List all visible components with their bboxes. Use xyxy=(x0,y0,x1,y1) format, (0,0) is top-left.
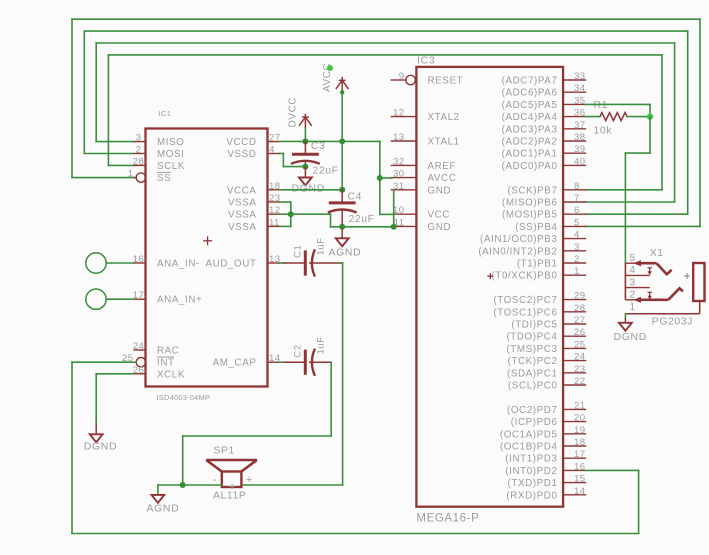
svg-text:SS: SS xyxy=(157,173,171,184)
IC3 pin 2 (T1)PB1 stub xyxy=(563,262,585,264)
IC3 pin 11 GND stub xyxy=(391,225,417,227)
svg-text:3: 3 xyxy=(574,242,580,253)
wire PA5 down to junction xyxy=(649,104,651,116)
capacitor C2 right lead xyxy=(310,361,332,363)
wire C1 to speaker vertical start xyxy=(340,262,343,264)
svg-text:26: 26 xyxy=(133,365,144,376)
IC3 pin 23 (SDA)PC1 stub xyxy=(563,372,585,374)
wire DVCC down to VCCD net xyxy=(304,129,306,142)
svg-text:1uF: 1uF xyxy=(316,336,327,354)
IC3 pin 13 XTAL1 stub xyxy=(391,140,417,142)
wire VSSD to C3 bottom xyxy=(283,166,305,168)
svg-text:(TMS)PC3: (TMS)PC3 xyxy=(506,344,557,355)
wire INT from IC1 pin 25 xyxy=(72,361,136,363)
svg-text:ANA_IN-: ANA_IN- xyxy=(157,259,200,270)
wire net SS left vertical xyxy=(71,19,73,177)
node ANA_IN- input pad circle xyxy=(86,253,106,273)
capacitor C1 right lead xyxy=(310,262,340,264)
svg-text:2: 2 xyxy=(630,290,636,301)
svg-text:1: 1 xyxy=(574,266,580,277)
IC3 pin 35 (ADC5)PA5 stub xyxy=(563,103,585,105)
wire net SS into IC3 pin 5 xyxy=(586,225,701,227)
wire VSSA pin 11 xyxy=(280,225,291,227)
svg-text:PG203J: PG203J xyxy=(652,316,693,327)
IC3 pin 31 GND stub xyxy=(391,189,417,191)
junction VSSA tie xyxy=(288,211,294,217)
IC3 pin 18 (OC1B)PD4 stub xyxy=(563,445,585,447)
svg-text:39: 39 xyxy=(574,144,585,155)
capacitor C2 xyxy=(305,349,315,376)
svg-text:VSSA: VSSA xyxy=(228,222,257,233)
svg-text:7: 7 xyxy=(574,193,580,204)
IC1 pin 11 VSSA stub xyxy=(268,225,280,227)
AGND under C4 xyxy=(336,227,349,246)
power DVCC xyxy=(299,114,312,129)
svg-text:28: 28 xyxy=(574,303,585,314)
svg-text:(TOSC2)PC7: (TOSC2)PC7 xyxy=(493,295,557,306)
wire net SS right vertical xyxy=(699,19,701,226)
wire VSSA pin 23 xyxy=(280,201,291,203)
IC1 pin 28 SCLK stub xyxy=(134,164,146,166)
IC3 pin 15 (TXD)PD1 stub xyxy=(563,482,585,484)
svg-text:4: 4 xyxy=(269,145,275,156)
IC1 pin 26 XCLK stub xyxy=(134,373,146,375)
IC3 pin 32 AREF stub xyxy=(391,164,417,166)
svg-text:(TOSC1)PC6: (TOSC1)PC6 xyxy=(493,307,557,318)
wire C2 return vertical left xyxy=(182,436,184,485)
svg-text:C4: C4 xyxy=(348,192,362,203)
svg-text:-: - xyxy=(213,474,217,486)
svg-text:SP1: SP1 xyxy=(214,446,235,457)
IC3 pin 39 (ADC1)PA1 stub xyxy=(563,152,585,154)
IC1 pin 12 VSSA stub xyxy=(268,213,280,215)
svg-text:SCLK: SCLK xyxy=(157,161,185,172)
svg-text:9: 9 xyxy=(399,71,405,82)
svg-text:27: 27 xyxy=(574,315,585,326)
svg-text:(SS)PB4: (SS)PB4 xyxy=(515,222,557,233)
IC3 MEGA16-P box xyxy=(416,67,563,507)
IC3 pin 1 (T0/XCK)PB0 stub xyxy=(563,274,585,276)
wire speaker - to AGND xyxy=(158,484,222,486)
svg-text:INT: INT xyxy=(157,358,175,369)
wire junction down xyxy=(649,117,651,154)
wire net MOSI top horizontal xyxy=(84,30,687,32)
wire jog left xyxy=(625,152,650,154)
svg-text:(TDI)PC5: (TDI)PC5 xyxy=(511,320,557,331)
svg-text:(AIN1/OC0)PB3: (AIN1/OC0)PB3 xyxy=(480,234,558,245)
junction AVCC rail on VCCD rail xyxy=(339,138,345,144)
svg-text:(OC2)PD7: (OC2)PD7 xyxy=(507,405,558,416)
svg-text:(OC1B)PD4: (OC1B)PD4 xyxy=(500,442,558,453)
DGND under X1 xyxy=(619,319,632,331)
svg-text:3: 3 xyxy=(136,133,142,144)
wire AVCC rail vertical xyxy=(341,92,343,190)
wire net MOSI into IC3 pin 6 xyxy=(586,213,688,215)
svg-text:VCCD: VCCD xyxy=(226,137,256,148)
svg-text:DVCC: DVCC xyxy=(288,97,299,128)
svg-text:RAC: RAC xyxy=(157,346,180,357)
svg-text:+: + xyxy=(684,269,691,283)
svg-text:40: 40 xyxy=(574,156,585,167)
svg-text:14: 14 xyxy=(574,486,586,497)
svg-text:R1: R1 xyxy=(594,100,608,111)
wire AM_CAP to C2 xyxy=(280,361,285,363)
IC3 pin 34 (ADC6)PA6 stub xyxy=(563,91,585,93)
wire C1 to speaker vertical xyxy=(342,263,344,485)
wire VSSA elbow vertical xyxy=(330,214,332,227)
IC1 pin 2 MOSI stub xyxy=(134,153,146,155)
wire INT bottom horizontal xyxy=(72,533,639,535)
wire ANA_IN+ to IC1 pin 17 xyxy=(106,298,133,300)
wire VSSA tie vertical xyxy=(290,202,292,226)
wire AVCC branch vertical lower xyxy=(379,178,381,214)
speaker SP1 xyxy=(206,460,257,487)
svg-text:23: 23 xyxy=(574,364,585,375)
svg-text:22uF: 22uF xyxy=(349,214,375,225)
wire VCCD rail horizontal xyxy=(280,140,380,142)
svg-text:26: 26 xyxy=(574,327,585,338)
svg-text:ANA_IN+: ANA_IN+ xyxy=(157,295,202,306)
svg-text:VSSA: VSSA xyxy=(228,210,257,221)
svg-text:(TCK)PC2: (TCK)PC2 xyxy=(508,356,558,367)
wire R1 to junction xyxy=(627,116,650,118)
svg-text:3: 3 xyxy=(630,277,636,288)
IC3 pin 9 RESET stub xyxy=(391,75,416,84)
wire AGND net horizontal to IC3 pin 11 xyxy=(331,226,394,228)
node ANA_IN+ input pad circle xyxy=(86,289,106,309)
svg-text:(T1)PB1: (T1)PB1 xyxy=(517,259,558,270)
svg-text:6: 6 xyxy=(574,205,580,216)
svg-text:+: + xyxy=(246,474,252,486)
svg-text:12: 12 xyxy=(393,108,404,119)
svg-text:AVCC: AVCC xyxy=(428,173,457,184)
svg-text:(ADC4)PA4: (ADC4)PA4 xyxy=(502,112,558,123)
svg-text:22: 22 xyxy=(574,376,585,387)
svg-text:24: 24 xyxy=(133,341,145,352)
wire VSSD stub link xyxy=(280,153,284,155)
svg-text:AM_CAP: AM_CAP xyxy=(213,358,257,369)
wire AVCC branch vertical upper xyxy=(379,141,381,178)
svg-text:(ADC7)PA7: (ADC7)PA7 xyxy=(502,76,558,87)
svg-text:20: 20 xyxy=(574,413,585,424)
svg-text:VCC: VCC xyxy=(428,210,451,221)
wire net SCK left vertical xyxy=(107,55,109,165)
DGND under C3 xyxy=(299,167,312,186)
svg-text:VSSD: VSSD xyxy=(227,149,256,160)
svg-text:(TXD)PD1: (TXD)PD1 xyxy=(508,478,558,489)
svg-text:GND: GND xyxy=(428,185,452,196)
capacitor C4 xyxy=(328,203,357,213)
wire IC3 pin 35 horizontal xyxy=(586,103,651,105)
op-amp ... actually IC1 ISD4003-04MP box xyxy=(146,129,268,387)
wire IC3 pin 36 to R1 xyxy=(586,116,601,118)
svg-text:C3: C3 xyxy=(311,141,325,152)
svg-text:25: 25 xyxy=(574,339,585,350)
svg-text:XTAL2: XTAL2 xyxy=(428,112,460,123)
wire net SS into IC1 pin 1 xyxy=(72,177,136,179)
svg-text:1uF: 1uF xyxy=(316,237,327,255)
IC3 pin 36 (ADC4)PA4 stub xyxy=(563,116,585,118)
svg-text:RESET: RESET xyxy=(428,76,464,87)
IC1 pin 16 ANA_IN- stub xyxy=(134,262,146,264)
wire IC3 pin 31 GND down to pin 11 xyxy=(393,190,395,227)
svg-text:4: 4 xyxy=(574,230,580,241)
svg-text:C1: C1 xyxy=(293,245,304,258)
wire jack pin 1 to DGND xyxy=(624,314,626,319)
svg-text:MOSI: MOSI xyxy=(157,149,184,160)
wire AVCC into IC3 pin 10 VCC xyxy=(380,213,392,215)
IC1 pin 3 MISO stub xyxy=(134,141,146,143)
IC3 pin 19 (OC1A)PD5 stub xyxy=(563,433,585,435)
svg-text:(AIN0/INT2)PB2: (AIN0/INT2)PB2 xyxy=(478,246,557,257)
IC3 pin 17 (INT1)PD3 stub xyxy=(563,457,585,459)
svg-text:(INT1)PD3: (INT1)PD3 xyxy=(505,454,557,465)
svg-text:AREF: AREF xyxy=(428,161,457,172)
svg-text:XTAL1: XTAL1 xyxy=(428,137,460,148)
wire INT left vertical xyxy=(71,362,73,533)
IC3 pin 40 (ADC0)PA0 stub xyxy=(563,164,585,166)
svg-text:XCLK: XCLK xyxy=(157,369,185,380)
IC1 pin 1 SS stub xyxy=(134,173,146,182)
svg-text:1: 1 xyxy=(630,302,636,313)
power AVCC xyxy=(336,77,349,92)
svg-text:30: 30 xyxy=(393,169,404,180)
svg-text:11: 11 xyxy=(269,217,280,228)
IC3 pin 3 (AIN0/INT2)PB2 stub xyxy=(563,250,585,252)
capacitor C3 xyxy=(291,154,320,164)
junction AVCC arrow base xyxy=(340,90,344,94)
svg-text:(ADC5)PA5: (ADC5)PA5 xyxy=(502,100,558,111)
svg-text:(T0/XCK)PB0: (T0/XCK)PB0 xyxy=(492,271,558,282)
svg-text:(ADC6)PA6: (ADC6)PA6 xyxy=(502,88,558,99)
connector X1 PG203J jack xyxy=(625,260,704,314)
IC3 pin 7 (MISO)PB6 stub xyxy=(563,201,585,203)
svg-text:4: 4 xyxy=(630,265,636,276)
capacitor C3 bottom lead xyxy=(304,163,306,167)
IC1 pin 14 AM_CAP stub xyxy=(268,361,280,363)
junction C3 top / DVCC / VCCD xyxy=(302,138,308,144)
svg-text:15: 15 xyxy=(574,474,585,485)
IC3 pin 38 (ADC2)PA2 stub xyxy=(563,140,585,142)
IC3 pin 20 (ICP)PD6 stub xyxy=(563,421,585,423)
wire net MISO top horizontal xyxy=(96,42,674,44)
wire VSSA pin 12 xyxy=(280,213,291,215)
wire XCLK down xyxy=(95,374,97,423)
svg-text:19: 19 xyxy=(574,425,585,436)
svg-text:(RXD)PD0: (RXD)PD0 xyxy=(506,490,557,501)
svg-text:36: 36 xyxy=(574,108,585,119)
IC1 pin 23 VSSA stub xyxy=(268,201,280,203)
DGND under XCLK xyxy=(90,423,103,442)
svg-text:(SCL)PC0: (SCL)PC0 xyxy=(508,381,557,392)
svg-text:34: 34 xyxy=(574,83,586,94)
svg-text:16: 16 xyxy=(574,461,585,472)
IC3 pin 30 AVCC stub xyxy=(391,177,417,179)
IC1 origin cross xyxy=(203,236,212,245)
IC1 pin 27 VCCD stub xyxy=(268,141,280,143)
svg-text:(SDA)PC1: (SDA)PC1 xyxy=(507,368,558,379)
svg-text:37: 37 xyxy=(574,120,585,131)
junction C3 bottom / VSSD xyxy=(302,164,308,170)
IC3 pin 8 (SCK)PB7 stub xyxy=(563,189,585,191)
svg-text:+: + xyxy=(229,481,235,493)
svg-text:28: 28 xyxy=(133,156,144,167)
svg-text:8: 8 xyxy=(574,181,580,192)
wire net SCK right vertical xyxy=(661,55,663,190)
junction speaker - / AGND xyxy=(180,482,186,488)
IC3 pin 21 (OC2)PD7 stub xyxy=(563,408,585,410)
junction IC3 GND pins tie xyxy=(391,224,397,230)
wire into speaker + terminal xyxy=(241,484,342,486)
IC3 pin 14 (RXD)PD0 stub xyxy=(563,494,585,496)
resistor R1 xyxy=(600,113,627,121)
svg-text:IC1: IC1 xyxy=(158,109,171,118)
IC3 origin cross xyxy=(487,273,493,279)
wire net MOSI left vertical xyxy=(83,31,85,153)
wire net SCK top horizontal xyxy=(108,54,662,56)
capacitor C4 top lead xyxy=(341,190,343,202)
IC3 pin 37 (ADC3)PA3 stub xyxy=(563,128,585,130)
svg-text:(INT0)PD2: (INT0)PD2 xyxy=(505,466,557,477)
svg-text:5: 5 xyxy=(630,253,636,264)
svg-text:17: 17 xyxy=(574,449,585,460)
svg-text:(ADC0)PA0: (ADC0)PA0 xyxy=(502,161,558,172)
junction AVCC / VCCA / C4 top xyxy=(339,187,345,193)
wire net SCK into IC1 pin 28 xyxy=(108,164,133,166)
svg-text:1: 1 xyxy=(128,169,134,180)
capacitor C1 xyxy=(305,249,315,276)
IC3 pin 4 (AIN1/OC0)PB3 stub xyxy=(563,238,585,240)
AGND at speaker xyxy=(152,495,165,503)
svg-text:(SCK)PB7: (SCK)PB7 xyxy=(508,185,558,196)
IC3 pin 5 (SS)PB4 stub xyxy=(563,225,585,227)
svg-text:13: 13 xyxy=(393,132,404,143)
IC3 pin 22 (SCL)PC0 stub xyxy=(563,384,585,386)
IC1 pin 24 RAC stub xyxy=(134,349,146,351)
svg-text:16: 16 xyxy=(133,254,144,265)
svg-text:(TDO)PC4: (TDO)PC4 xyxy=(506,332,557,343)
svg-text:33: 33 xyxy=(574,71,585,82)
svg-text:31: 31 xyxy=(393,181,404,192)
svg-text:ISD4003-04MP: ISD4003-04MP xyxy=(157,393,211,402)
junction R1 / PA5 net xyxy=(647,113,653,119)
IC1 pin 17 ANA_IN+ stub xyxy=(134,298,146,300)
svg-text:AGND: AGND xyxy=(147,503,180,514)
svg-text:DGND: DGND xyxy=(84,442,117,453)
svg-text:(ADC1)PA1: (ADC1)PA1 xyxy=(502,149,558,160)
IC3 pin 10 VCC stub xyxy=(391,213,417,215)
IC3 pin 26 (TDO)PC4 stub xyxy=(563,335,585,337)
svg-text:2: 2 xyxy=(136,145,142,156)
svg-text:18: 18 xyxy=(574,437,585,448)
svg-text:5: 5 xyxy=(574,217,580,228)
wire VSSD vertical xyxy=(282,154,284,167)
IC1 pin 4 VSSD stub xyxy=(268,153,280,155)
junction AVCC branch at pin 30 xyxy=(377,175,383,181)
IC3 pin 25 (TMS)PC3 stub xyxy=(563,347,585,349)
svg-text:VSSA: VSSA xyxy=(228,198,257,209)
wire C2 return vertical right xyxy=(330,362,332,436)
svg-text:AUD_OUT: AUD_OUT xyxy=(205,259,256,270)
svg-text:21: 21 xyxy=(574,400,585,411)
wire XCLK from IC1 pin 26 xyxy=(96,373,133,375)
svg-text:(MISO)PB6: (MISO)PB6 xyxy=(502,198,557,209)
svg-text:22uF: 22uF xyxy=(313,166,339,177)
IC3 pin 6 (MOSI)PB5 stub xyxy=(563,213,585,215)
capacitor C3 top lead xyxy=(304,141,306,152)
svg-text:(ADC2)PA2: (ADC2)PA2 xyxy=(502,137,558,148)
wire AVCC into IC3 pin 30 xyxy=(380,177,392,179)
wire ANA_IN- to IC1 pin 16 xyxy=(106,262,133,264)
capacitor C1 left lead xyxy=(284,262,304,264)
svg-text:MEGA16-P: MEGA16-P xyxy=(416,512,479,524)
wire net MOSI right vertical xyxy=(687,31,689,214)
wire net SS top horizontal xyxy=(72,18,700,20)
IC3 pin 29 (TOSC2)PC7 stub xyxy=(563,299,585,301)
wire AGND elbow xyxy=(157,485,159,495)
wire VSSA to AGND net horizontal xyxy=(291,213,331,215)
svg-text:(OC1A)PD5: (OC1A)PD5 xyxy=(500,429,558,440)
svg-text:35: 35 xyxy=(574,95,585,106)
wire INT right vertical xyxy=(638,470,640,533)
svg-text:MISO: MISO xyxy=(157,137,184,148)
svg-text:32: 32 xyxy=(393,156,404,167)
svg-text:10: 10 xyxy=(393,205,404,216)
svg-text:29: 29 xyxy=(574,291,585,302)
wire C2 return horizontal xyxy=(183,435,332,437)
IC1 pin 13 AUD_OUT stub xyxy=(268,262,280,264)
IC3 pin 24 (TCK)PC2 stub xyxy=(563,360,585,362)
svg-text:(MOSI)PB5: (MOSI)PB5 xyxy=(502,210,557,221)
capacitor C2 left lead xyxy=(284,361,304,363)
wire net MOSI into IC1 pin 2 xyxy=(84,153,133,155)
node AVCC bright green dot xyxy=(327,65,333,71)
IC3 pin 16 (INT0)PD2 stub xyxy=(563,469,585,471)
wire net MISO left vertical xyxy=(95,43,97,142)
junction C4 bottom / AGND net xyxy=(339,224,345,230)
svg-text:VCCA: VCCA xyxy=(227,185,257,196)
svg-text:(ICP)PD6: (ICP)PD6 xyxy=(511,417,558,428)
wire net MISO into IC1 pin 3 xyxy=(96,141,133,143)
svg-text:17: 17 xyxy=(133,290,144,301)
svg-text:IC3: IC3 xyxy=(417,55,435,67)
svg-text:DGND: DGND xyxy=(614,332,647,343)
wire VCCA to AVCC rail xyxy=(280,189,343,191)
svg-text:(ADC3)PA3: (ADC3)PA3 xyxy=(502,124,558,135)
capacitor C4 bottom lead xyxy=(341,211,343,227)
svg-text:X1: X1 xyxy=(650,248,664,259)
wire down to jack X1 xyxy=(624,153,626,263)
IC1 pin 18 VCCA stub xyxy=(268,189,280,191)
wire net SCK into IC3 pin 8 xyxy=(586,189,663,191)
svg-text:24: 24 xyxy=(574,352,586,363)
IC3 pin 27 (TDI)PC5 stub xyxy=(563,323,585,325)
wire net MISO right vertical xyxy=(674,43,676,202)
wire AUD_OUT to C1 xyxy=(280,262,285,264)
svg-text:38: 38 xyxy=(574,132,585,143)
wire INT into IC3 pin 16 xyxy=(586,469,639,471)
IC3 pin 28 (TOSC1)PC6 stub xyxy=(563,311,585,313)
svg-text:AGND: AGND xyxy=(329,248,362,259)
svg-text:C2: C2 xyxy=(293,344,304,357)
IC3 pin 12 XTAL2 stub xyxy=(391,116,417,118)
IC3 pin 33 (ADC7)PA7 stub xyxy=(563,79,585,81)
wire net MISO into IC3 pin 7 xyxy=(586,201,675,203)
svg-text:2: 2 xyxy=(574,254,580,265)
svg-text:GND: GND xyxy=(428,222,452,233)
svg-text:10k: 10k xyxy=(594,125,613,136)
IC1 pin 25 INT stub xyxy=(134,358,146,367)
